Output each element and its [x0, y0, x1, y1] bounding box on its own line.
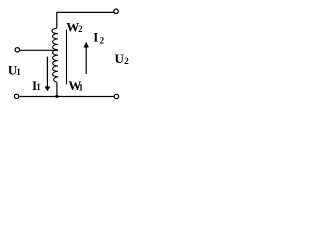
node junction dot — [55, 95, 58, 98]
svg-text:2: 2 — [78, 24, 83, 34]
terminal bottom-right — [114, 94, 118, 98]
winding span bar — [66, 30, 68, 85]
svg-text:U: U — [115, 51, 125, 66]
svg-text:1: 1 — [36, 82, 41, 92]
arrow I1 (down) — [46, 57, 48, 87]
terminal top-left — [15, 48, 19, 52]
arrow I2 (up) — [85, 46, 87, 75]
svg-text:1: 1 — [79, 82, 84, 92]
wire coil bottom lead — [56, 82, 58, 96]
svg-text:1: 1 — [16, 67, 21, 77]
wire bottom rail — [19, 96, 113, 98]
wire top rail — [57, 12, 114, 28]
svg-text:2: 2 — [124, 56, 129, 66]
wire tap — [20, 49, 58, 51]
terminal bottom-left — [14, 94, 18, 98]
svg-text:I: I — [93, 30, 98, 45]
transformer winding L1 (coil bumps) — [52, 28, 58, 82]
terminal top-right — [114, 9, 118, 13]
svg-text:2: 2 — [100, 35, 105, 45]
